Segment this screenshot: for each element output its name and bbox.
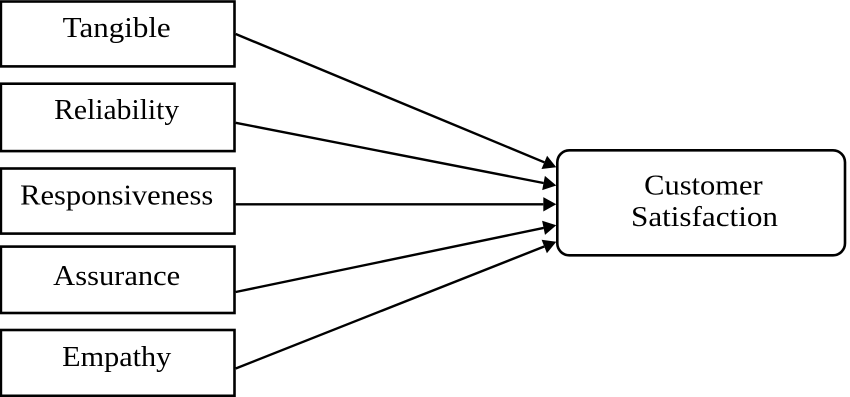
box: Customer Satisfaction [557, 150, 845, 255]
svg-text:Satisfaction: Satisfaction [631, 202, 778, 233]
arrowhead 1 [542, 156, 557, 169]
svg-text:Assurance: Assurance [53, 261, 180, 292]
box: Assurance [1, 247, 235, 313]
svg-text:Tangible: Tangible [63, 13, 171, 44]
wire: arrow line 1 (Tangible to Customer Satisfaction) [236, 34, 545, 162]
box: Responsiveness [1, 169, 235, 234]
svg-text:Reliability: Reliability [54, 95, 179, 126]
box: Tangible [1, 2, 235, 67]
arrowhead 3 [543, 197, 556, 211]
arrowhead 2 [542, 176, 556, 190]
svg-text:Responsiveness: Responsiveness [20, 180, 213, 211]
box: Empathy [1, 330, 235, 396]
arrowhead 5 [542, 240, 557, 253]
arrowhead 4 [542, 221, 556, 235]
wire: arrow line 2 (Reliability to Customer Satisfaction) [236, 123, 544, 183]
svg-text:Empathy: Empathy [62, 342, 171, 373]
svg-text:Customer: Customer [644, 171, 763, 202]
wire: arrow line 5 (Empathy to Customer Satisfaction) [236, 247, 545, 369]
box: Reliability [1, 84, 235, 151]
wire: arrow line 3 (Responsiveness to Customer Satisfaction) [236, 203, 544, 205]
wire: arrow line 4 (Assurance to Customer Satisfaction) [236, 228, 544, 292]
